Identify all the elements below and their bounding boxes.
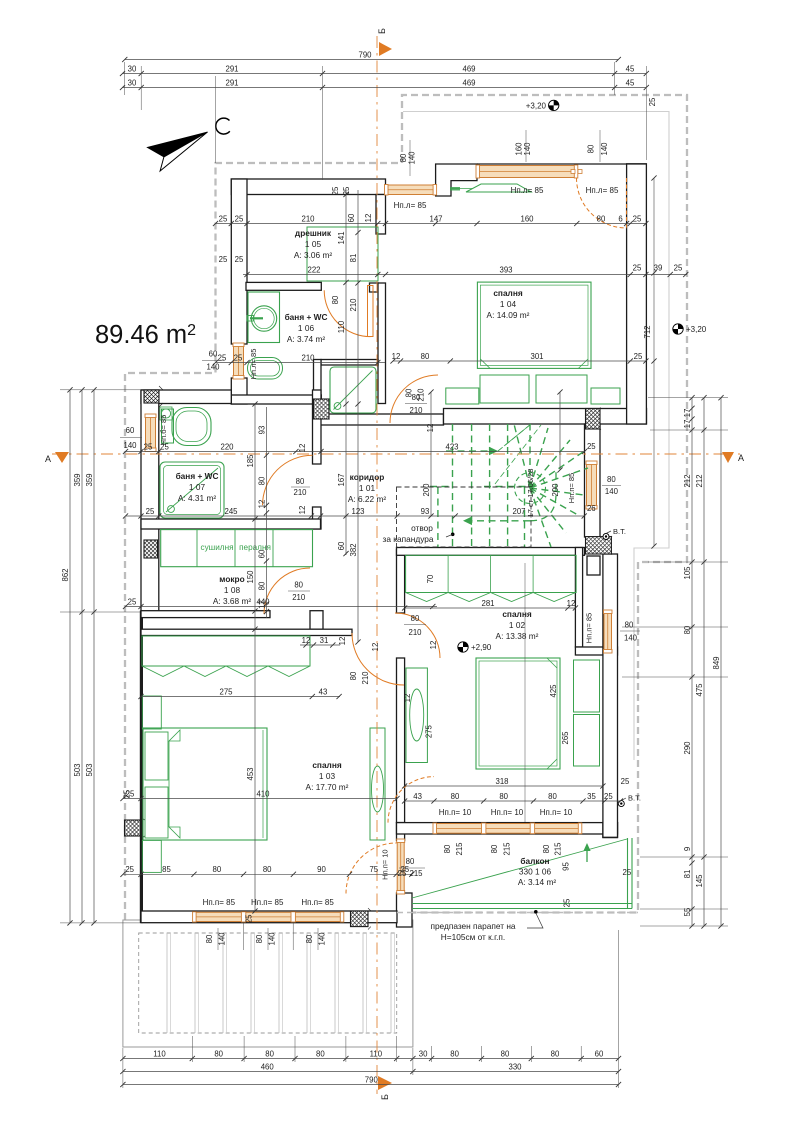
svg-text:185: 185 xyxy=(246,454,255,468)
svg-text:80: 80 xyxy=(597,214,606,223)
dim line y223 (top rooms) xyxy=(216,223,646,225)
svg-text:291: 291 xyxy=(225,78,238,87)
wall banya107 east lower xyxy=(313,507,322,529)
svg-text:393: 393 xyxy=(499,265,512,274)
svg-text:80: 80 xyxy=(405,388,414,397)
svg-text:12: 12 xyxy=(302,636,311,645)
balcony railing xyxy=(627,838,629,909)
svg-text:359: 359 xyxy=(73,473,82,486)
svg-text:балкон: балкон xyxy=(520,856,549,866)
svg-text:330: 330 xyxy=(508,1062,522,1071)
svg-text:25: 25 xyxy=(623,868,632,877)
dim right 849 xyxy=(720,398,722,926)
svg-text:12: 12 xyxy=(426,424,435,433)
wall shower-nook west xyxy=(314,360,322,415)
svg-text:145: 145 xyxy=(695,874,704,888)
svg-text:210: 210 xyxy=(361,671,370,685)
dim line y874 (25 85 80 80 90 75 25) xyxy=(123,873,412,875)
dim right row1 xyxy=(691,398,693,926)
svg-text:140: 140 xyxy=(206,363,220,372)
section line A (horizontal) xyxy=(52,453,740,455)
svg-text:25: 25 xyxy=(342,186,351,195)
wall banya107 east upper xyxy=(313,390,322,464)
wall west exterior upper xyxy=(141,390,159,611)
svg-text:25: 25 xyxy=(160,442,169,451)
dim bottom row2 xyxy=(123,1071,619,1073)
svg-text:25: 25 xyxy=(634,352,643,361)
svg-text:212: 212 xyxy=(695,474,704,487)
door banya107 arc xyxy=(263,455,313,505)
section line B (vertical) xyxy=(376,36,378,1094)
svg-text:503: 503 xyxy=(85,763,94,776)
wall banya106 south xyxy=(231,395,321,404)
terrace inner dashed xyxy=(139,933,397,1033)
svg-text:17 ст 17.06/28: 17 ст 17.06/28 xyxy=(526,469,535,518)
svg-text:12: 12 xyxy=(298,506,307,515)
svg-text:80: 80 xyxy=(316,1049,325,1058)
svg-text:220: 220 xyxy=(220,442,234,451)
svg-text:25: 25 xyxy=(125,865,134,874)
wall nook south xyxy=(575,647,617,655)
dim line y608 (281) xyxy=(405,607,576,609)
door bedroom103 arc xyxy=(352,633,404,685)
window section marks A xyxy=(571,170,575,174)
svg-text:215: 215 xyxy=(554,842,563,856)
dim vline x255 (185 150 453) xyxy=(254,404,256,911)
svg-text:12: 12 xyxy=(392,352,401,361)
dim texts windows south 80 140 xyxy=(205,928,327,950)
svg-text:110: 110 xyxy=(337,320,346,333)
svg-text:140: 140 xyxy=(600,142,609,156)
svg-text:39: 39 xyxy=(654,264,663,273)
svg-text:453: 453 xyxy=(246,767,255,780)
svg-text:150: 150 xyxy=(246,570,255,584)
svg-text:147: 147 xyxy=(429,214,442,223)
svg-text:Б: Б xyxy=(380,1094,390,1100)
dim left row2 xyxy=(93,390,95,923)
svg-text:105: 105 xyxy=(683,566,692,580)
section marker A left xyxy=(55,452,69,463)
svg-text:Нп.п= 85: Нп.п= 85 xyxy=(567,473,576,503)
svg-text:25: 25 xyxy=(146,507,155,516)
svg-text:25: 25 xyxy=(674,264,683,273)
svg-text:Нп.л= 85: Нп.л= 85 xyxy=(511,186,544,195)
svg-text:95: 95 xyxy=(562,862,571,871)
svg-text:503: 503 xyxy=(73,763,82,776)
svg-text:мокро: мокро xyxy=(219,574,244,584)
svg-text:80: 80 xyxy=(411,614,420,623)
svg-text:80: 80 xyxy=(214,1049,223,1058)
dim vline x431 (200) xyxy=(430,392,432,516)
svg-text:12: 12 xyxy=(257,600,266,609)
dim left 862 xyxy=(69,390,71,923)
vent shaft stairwell SE xyxy=(586,536,613,555)
svg-text:80: 80 xyxy=(421,352,430,361)
level marker +3,20 right xyxy=(673,324,683,334)
svg-text:275: 275 xyxy=(219,687,233,696)
wall bedroom102 west xyxy=(397,658,405,823)
bedroom103 bed xyxy=(143,728,267,840)
window bedroom102 east xyxy=(604,611,612,652)
svg-text:25: 25 xyxy=(587,442,596,451)
svg-text:60: 60 xyxy=(337,541,346,550)
svg-text:110: 110 xyxy=(370,1049,383,1058)
wall bedroom103/102 west of corridor upper xyxy=(397,550,405,613)
svg-text:25: 25 xyxy=(144,442,153,451)
shower tray nook xyxy=(330,367,376,413)
svg-text:330 1 06: 330 1 06 xyxy=(519,867,552,877)
svg-text:212: 212 xyxy=(683,474,692,487)
svg-text:460: 460 xyxy=(261,1062,275,1071)
svg-text:A: 3.74 m²: A: 3.74 m² xyxy=(287,334,326,344)
svg-text:93: 93 xyxy=(257,426,266,435)
wall bedroom102 SE corner xyxy=(603,823,618,838)
svg-text:60: 60 xyxy=(209,350,218,359)
svg-text:баня + WC: баня + WC xyxy=(285,312,328,322)
dim bottom row1 left xyxy=(123,1058,413,1060)
svg-text:81: 81 xyxy=(349,254,358,263)
svg-text:90: 90 xyxy=(317,865,326,874)
wall pier at bedroom104 NW xyxy=(436,164,477,196)
svg-text:80: 80 xyxy=(490,844,499,853)
door bedroom104 (dashed) xyxy=(626,178,628,228)
svg-text:291: 291 xyxy=(225,64,238,73)
wall stairs north / bedroom104 south xyxy=(444,409,647,425)
mokro washing machines row xyxy=(161,530,313,567)
wall mokro south-east piece xyxy=(310,611,323,630)
dim line y697 (275 43) xyxy=(141,696,340,698)
svg-text:215: 215 xyxy=(455,842,464,856)
door mokro arc xyxy=(264,568,310,614)
svg-text:A: 14.09 m²: A: 14.09 m² xyxy=(487,310,530,320)
svg-text:475: 475 xyxy=(695,683,704,697)
svg-text:140: 140 xyxy=(123,441,137,450)
banya106 sink bowl xyxy=(251,306,276,331)
wall banya107-mokro xyxy=(141,519,321,529)
dim vline x266 (93 80 12 80 12) xyxy=(266,407,268,618)
bedroom102 wardrobe xyxy=(406,555,576,592)
svg-text:30: 30 xyxy=(419,1049,428,1058)
door bedroom102-balcony (dashed) xyxy=(388,777,434,823)
svg-text:6: 6 xyxy=(618,214,622,223)
svg-text:Нп.л= 85: Нп.л= 85 xyxy=(586,186,619,195)
vent block west wall xyxy=(125,816,145,840)
svg-text:140: 140 xyxy=(268,932,277,946)
section marker B bottom xyxy=(378,1076,392,1090)
svg-text:790: 790 xyxy=(365,1075,379,1084)
stair walk arrow down xyxy=(462,520,530,522)
svg-text:A: 3.68 m²: A: 3.68 m² xyxy=(213,596,252,606)
roof inner gray line xyxy=(403,112,669,761)
svg-text:12: 12 xyxy=(429,641,438,650)
vent shaft bedroom103 south wall xyxy=(351,908,371,929)
balcony dashed gray edge xyxy=(397,912,638,914)
svg-text:410: 410 xyxy=(256,789,270,798)
wall dreshnik east xyxy=(376,195,386,235)
bedroom102 dresser xyxy=(406,668,427,763)
svg-text:+3,20: +3,20 xyxy=(686,325,707,334)
svg-text:Н=105см от к.г.п.: Н=105см от к.г.п. xyxy=(441,932,505,942)
svg-text:75: 75 xyxy=(369,865,378,874)
dim vline x560 (200) xyxy=(559,392,561,470)
svg-text:Нп.п= 10: Нп.п= 10 xyxy=(540,808,573,817)
wall bedroom104 top edge line xyxy=(477,163,646,165)
svg-text:60: 60 xyxy=(347,213,356,222)
svg-text:80: 80 xyxy=(548,792,557,801)
svg-text:A: 4.31 m²: A: 4.31 m² xyxy=(178,493,217,503)
banya106 sink cabinet xyxy=(248,292,280,343)
svg-text:140: 140 xyxy=(318,932,327,946)
svg-text:45: 45 xyxy=(626,78,635,87)
svg-text:25: 25 xyxy=(621,777,630,786)
banya106 toilet xyxy=(248,358,283,380)
dim line y362 block (25 25 210) xyxy=(216,362,386,364)
svg-text:1 08: 1 08 xyxy=(224,585,241,595)
banya107 small sink xyxy=(161,409,170,418)
wall banya106 north xyxy=(246,282,321,290)
section marker B top xyxy=(379,42,392,56)
svg-text:80: 80 xyxy=(443,844,452,853)
svg-text:80: 80 xyxy=(265,1049,274,1058)
dim line y516 (245 123 93 207) xyxy=(126,515,585,517)
svg-text:12: 12 xyxy=(298,444,307,453)
svg-text:80: 80 xyxy=(205,934,214,943)
svg-text:160: 160 xyxy=(520,214,534,223)
vent shaft bedroom104 south wall xyxy=(586,408,602,431)
svg-text:80: 80 xyxy=(406,857,415,866)
bedroom102 wardrobe column upper xyxy=(574,660,600,712)
svg-text:31: 31 xyxy=(320,636,329,645)
stair stringer lines xyxy=(498,424,531,451)
svg-text:81: 81 xyxy=(683,870,692,879)
svg-text:1 03: 1 03 xyxy=(319,771,336,781)
svg-text:25: 25 xyxy=(245,914,254,923)
level marker +3,20 top xyxy=(549,100,559,110)
wall bedroom104 east xyxy=(627,164,647,424)
balcony diagonal xyxy=(412,839,627,898)
window band bedroom102 south xyxy=(434,824,581,834)
bedroom102 wardrobe column lower xyxy=(574,715,600,767)
wall east exterior bedroom102 xyxy=(603,554,618,837)
svg-text:80: 80 xyxy=(296,477,305,486)
svg-text:359: 359 xyxy=(85,473,94,486)
dim top row2 xyxy=(123,87,647,89)
wall bedroom103 south xyxy=(141,911,397,923)
svg-text:80: 80 xyxy=(349,671,358,680)
svg-text:862: 862 xyxy=(61,568,70,581)
dim left extension lines xyxy=(60,390,140,923)
dreshnik wardrobe xyxy=(307,227,378,281)
wall corridor west jamb xyxy=(370,283,379,292)
svg-text:469: 469 xyxy=(462,64,475,73)
svg-text:200: 200 xyxy=(551,483,560,497)
dim top 790 xyxy=(125,59,619,61)
bedroom104 mattress left xyxy=(480,375,529,403)
window block west xyxy=(234,344,244,378)
bedroom104 wardrobe/bed head xyxy=(477,282,591,368)
bedroom104 mattress right xyxy=(536,375,587,403)
svg-text:80: 80 xyxy=(257,476,266,485)
svg-text:80: 80 xyxy=(213,865,222,874)
svg-text:25: 25 xyxy=(563,898,572,907)
vent shaft top-left wing xyxy=(144,386,163,407)
bedroom103 nightstand lower xyxy=(142,840,161,872)
svg-text:30: 30 xyxy=(128,78,137,87)
svg-text:25: 25 xyxy=(633,214,642,223)
svg-text:70: 70 xyxy=(426,574,435,583)
svg-text:30: 30 xyxy=(128,64,137,73)
svg-text:245: 245 xyxy=(224,507,238,516)
dim line y801 right (43 80 80 80 35 25) xyxy=(405,800,621,802)
wall top-left block north xyxy=(231,179,385,195)
svg-text:предпазен парапет на: предпазен парапет на xyxy=(430,921,515,931)
svg-text:423: 423 xyxy=(445,442,458,451)
wall shower-nook north xyxy=(321,360,378,366)
svg-text:140: 140 xyxy=(408,151,417,165)
window stairwell east xyxy=(587,462,597,508)
svg-text:25: 25 xyxy=(604,792,613,801)
svg-text:89.46 m2: 89.46 m2 xyxy=(95,321,196,349)
svg-text:301: 301 xyxy=(530,352,543,361)
north arrow xyxy=(147,132,207,157)
wall mokro south xyxy=(141,611,270,618)
svg-text:А: А xyxy=(45,454,51,464)
svg-text:сушилня: сушилня xyxy=(200,543,233,552)
svg-text:Нп.л= 85: Нп.л= 85 xyxy=(394,201,427,210)
svg-text:210: 210 xyxy=(408,628,422,637)
svg-text:80: 80 xyxy=(587,144,596,153)
svg-text:140: 140 xyxy=(624,633,638,642)
svg-text:210: 210 xyxy=(409,406,423,415)
stair opening dashed rect xyxy=(397,487,532,547)
svg-text:1 01: 1 01 xyxy=(359,483,376,493)
level marker +2,90 bedroom102 xyxy=(458,642,468,652)
svg-text:Нп.л= 85: Нп.л= 85 xyxy=(249,349,258,380)
svg-text:80: 80 xyxy=(255,934,264,943)
dim line y606 (440) xyxy=(126,606,438,608)
svg-text:207: 207 xyxy=(512,507,525,516)
svg-text:спалня: спалня xyxy=(312,760,342,770)
svg-text:382: 382 xyxy=(349,543,358,556)
svg-text:В.Т.: В.Т. xyxy=(613,527,626,536)
svg-text:12: 12 xyxy=(371,643,380,652)
svg-text:17: 17 xyxy=(683,409,692,418)
door shower nook arc xyxy=(390,375,438,423)
banya107 shower xyxy=(160,462,224,518)
stair walk arrow up xyxy=(446,450,488,452)
B.T. marker lower xyxy=(618,801,624,807)
svg-text:12: 12 xyxy=(403,694,412,703)
svg-text:25: 25 xyxy=(219,255,228,264)
svg-text:25: 25 xyxy=(235,255,244,264)
wall corridor west xyxy=(378,283,386,404)
wall bedroom103 north xyxy=(141,629,352,635)
wall top-left block west upper xyxy=(231,179,247,344)
svg-text:25: 25 xyxy=(398,869,407,878)
bedroom104 nightstand right xyxy=(591,388,620,404)
dim bottom row1 right xyxy=(413,1058,619,1060)
svg-text:210: 210 xyxy=(293,488,307,497)
banya107 toilet xyxy=(162,409,174,443)
svg-text:110: 110 xyxy=(153,1049,166,1058)
svg-text:17: 17 xyxy=(683,420,692,429)
small dim texts misc xyxy=(123,186,435,923)
dim right row2 xyxy=(703,398,705,926)
svg-text:1 06: 1 06 xyxy=(298,323,315,333)
svg-text:80: 80 xyxy=(625,620,634,629)
svg-text:12: 12 xyxy=(364,214,373,223)
ext lines south windows xyxy=(243,922,245,950)
svg-text:790: 790 xyxy=(358,50,372,59)
svg-text:35: 35 xyxy=(587,792,596,801)
svg-text:+2,90: +2,90 xyxy=(471,643,492,652)
svg-text:140: 140 xyxy=(523,142,532,156)
wall wing north xyxy=(141,390,231,404)
svg-text:25: 25 xyxy=(128,597,137,606)
dreshnik low cabinet xyxy=(466,184,531,192)
bedroom102 bed xyxy=(476,658,560,769)
svg-text:80: 80 xyxy=(305,934,314,943)
svg-text:A: A xyxy=(738,453,744,463)
svg-text:баня + WC: баня + WC xyxy=(176,471,219,481)
dim line y274 (222 / 393) xyxy=(243,274,687,276)
svg-text:140: 140 xyxy=(605,487,619,496)
svg-text:210: 210 xyxy=(301,353,315,362)
svg-text:9: 9 xyxy=(683,847,692,851)
svg-text:Нп.п= 85: Нп.п= 85 xyxy=(203,898,236,907)
svg-text:26: 26 xyxy=(587,504,596,513)
dim right extension lines xyxy=(622,398,728,926)
svg-text:В.Т.: В.Т. xyxy=(628,794,641,803)
svg-text:93: 93 xyxy=(421,507,430,516)
window west wall banya107 xyxy=(146,415,156,451)
vent shaft west wall mid xyxy=(144,540,158,559)
svg-text:1 02: 1 02 xyxy=(509,620,526,630)
svg-text:80: 80 xyxy=(257,581,266,590)
svg-text:200: 200 xyxy=(422,483,431,497)
roof overhang dashed outline xyxy=(125,95,687,920)
svg-text:80: 80 xyxy=(450,1049,459,1058)
svg-text:A: 13.38 m²: A: 13.38 m² xyxy=(496,631,539,641)
svg-text:425: 425 xyxy=(549,684,558,698)
dim line y786 (318) xyxy=(405,785,603,787)
svg-text:25: 25 xyxy=(633,264,642,273)
B.T. marker upper xyxy=(603,534,609,540)
svg-text:Нп.п= 85: Нп.п= 85 xyxy=(251,898,284,907)
terrace outline xyxy=(123,920,413,1047)
svg-text:A: 3.06 m²: A: 3.06 m² xyxy=(294,250,333,260)
svg-text:85: 85 xyxy=(162,865,171,874)
svg-text:12: 12 xyxy=(338,637,347,646)
svg-text:спалня: спалня xyxy=(502,609,532,619)
svg-text:отвор: отвор xyxy=(411,523,433,533)
svg-text:A: 17.70 m²: A: 17.70 m² xyxy=(306,782,349,792)
dim bottom row3 xyxy=(123,1084,619,1086)
svg-text:80: 80 xyxy=(331,295,340,304)
dim line y798 left (25 410) xyxy=(123,798,397,800)
svg-text:12: 12 xyxy=(257,500,266,509)
door bedroom103-balcony (dashed) xyxy=(346,843,397,894)
banya106 sink tap xyxy=(247,316,254,322)
svg-text:80: 80 xyxy=(294,581,303,590)
dim top extension lines xyxy=(125,62,647,180)
svg-text:712: 712 xyxy=(643,325,652,338)
svg-text:Нп.п= 10: Нп.п= 10 xyxy=(380,849,389,879)
wall west exterior lower (single line) xyxy=(140,611,142,923)
svg-text:A: 6.22 m²: A: 6.22 m² xyxy=(348,494,387,504)
dim right 712 xyxy=(653,178,655,546)
terrace plank lines xyxy=(167,933,395,1033)
